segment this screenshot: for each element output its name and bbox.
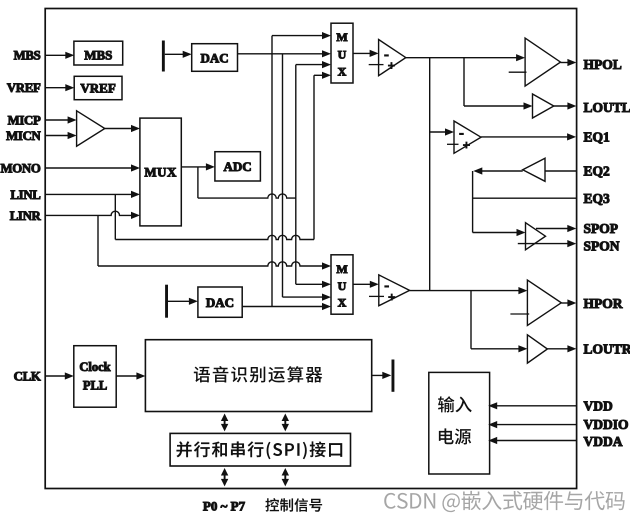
- wire U1 output to HPOL amp: [406, 57, 522, 59]
- wire MUX2 to comparator U3: [353, 283, 375, 285]
- svg-text:Clock: Clock: [79, 360, 110, 374]
- wire speaker amp to SPON pin: [518, 243, 573, 245]
- svg-text:EQ1: EQ1: [584, 130, 611, 145]
- svg-text:VREF: VREF: [7, 81, 41, 95]
- svg-text:+: +: [463, 137, 470, 152]
- wire LOUTL amp to pin: [554, 105, 573, 107]
- svg-text:EQ3: EQ3: [584, 191, 611, 206]
- bus SPI-port left: [224, 474, 226, 480]
- svg-text:DAC: DAC: [206, 295, 234, 310]
- svg-text:EQ2: EQ2: [584, 164, 611, 179]
- block output MUX2: [331, 255, 353, 314]
- wire net to EQ1 comparator: [430, 131, 451, 133]
- wire VREF pin to VREF block: [45, 87, 71, 89]
- wire EQ2 pin to EQ2 amp: [545, 170, 577, 172]
- svg-text:+: +: [388, 289, 395, 304]
- label control signals: [265, 498, 322, 512]
- svg-text:+: +: [388, 58, 395, 73]
- op-amp comparator U2 EQ1: [454, 121, 481, 153]
- svg-text:HPOL: HPOL: [584, 57, 622, 72]
- wire LINL tap to bus V4: [115, 235, 314, 239]
- block input power supply: [429, 372, 490, 474]
- stub HPOR feedback: [510, 313, 529, 315]
- chip boundary: [45, 9, 576, 489]
- op-amp comparator U3: [379, 275, 410, 306]
- wire Clock PLL to processor: [116, 375, 142, 377]
- svg-text:MBS: MBS: [14, 49, 41, 63]
- svg-text:VDDIO: VDDIO: [584, 417, 629, 432]
- bus wire V4 LINL-to-MUX1: [313, 75, 315, 239]
- block Clock PLL: [74, 346, 116, 408]
- junction LINR tap: [97, 215, 99, 266]
- op-amp speaker driver: [526, 223, 546, 250]
- svg-text:U: U: [338, 47, 347, 61]
- wire HPOL amp to pin: [561, 62, 574, 64]
- svg-text:M: M: [336, 262, 347, 276]
- watermark CSDN: [384, 491, 624, 512]
- svg-text:CLK: CLK: [14, 369, 41, 383]
- op-amp mic preamp: [77, 111, 105, 146]
- svg-text:LOUTL: LOUTL: [584, 100, 630, 115]
- stub U3 plus input: [369, 295, 384, 297]
- svg-text:DAC: DAC: [201, 50, 229, 65]
- wire speaker amp to SPOP pin: [536, 228, 573, 230]
- wire MICP pin to mic amp: [45, 119, 73, 121]
- bus wire V2 DAC1-to-MUX2: [282, 54, 284, 297]
- svg-text:LINL: LINL: [10, 188, 40, 202]
- wire DAC2 to output MUX2: [242, 306, 327, 308]
- wire U2 output to EQ1 pin: [481, 136, 573, 138]
- wire input MUX to ADC: [181, 166, 211, 168]
- block SPI interface: [170, 433, 350, 466]
- wire EQ2 net down: [472, 171, 474, 233]
- svg-text:HPOR: HPOR: [584, 296, 623, 311]
- bus wire V1 DAC2-to-MUX1: [271, 36, 273, 307]
- svg-text:VREF: VREF: [80, 81, 115, 96]
- svg-text:U: U: [338, 279, 347, 293]
- stub U2 plus input: [447, 143, 459, 145]
- wire MUX1 to comparator U1: [353, 52, 375, 54]
- wire processor to output bar: [372, 374, 388, 376]
- wire net to speaker amp: [473, 232, 522, 234]
- svg-text:LOUTR: LOUTR: [584, 342, 630, 357]
- wire U1 output down to HPOR net: [429, 58, 431, 291]
- op-amp EQ2 buffer: [523, 158, 545, 181]
- input bar DAC1: [162, 41, 165, 72]
- bus processor-SPI left: [224, 420, 226, 426]
- wire EQ3 pin to net: [473, 197, 577, 199]
- op-amp comparator U1: [379, 40, 406, 76]
- block speech recognition processor: [145, 340, 371, 412]
- junction ADC record tap: [197, 167, 199, 198]
- stub HPOL feedback: [509, 71, 527, 73]
- svg-text:LINR: LINR: [10, 209, 42, 223]
- svg-text:ADC: ADC: [224, 159, 252, 174]
- wire bar to DAC1: [165, 53, 189, 55]
- wire ADC tap to bus V3: [198, 194, 296, 198]
- wire VDD pin to power block: [492, 405, 577, 407]
- bus processor-SPI right: [284, 420, 286, 426]
- svg-text:MICP: MICP: [8, 113, 41, 127]
- output bar processor: [392, 360, 395, 392]
- op-amp LOUTR driver: [527, 335, 547, 363]
- bus SPI-port right: [284, 474, 286, 480]
- svg-text:X: X: [338, 295, 347, 309]
- svg-text:SPOP: SPOP: [584, 221, 619, 236]
- wire LOUTR amp to pin: [547, 348, 573, 350]
- op-amp HPOR driver: [527, 280, 561, 325]
- junction LINL tap: [114, 194, 116, 239]
- svg-text:SPON: SPON: [584, 238, 620, 253]
- wire MBS pin to MBS block: [45, 54, 71, 56]
- block output MUX1: [331, 23, 353, 83]
- wire U3 output to HPOR amp: [410, 290, 524, 292]
- wire LINR tap to output MUX2: [98, 262, 328, 266]
- block VREF: [74, 76, 122, 99]
- svg-text:PLL: PLL: [83, 379, 107, 393]
- wire DAC1 to output MUX1: [238, 53, 328, 55]
- svg-text:X: X: [338, 64, 347, 78]
- wire MICN pin to mic amp: [45, 135, 73, 137]
- input bar DAC2: [165, 285, 168, 318]
- stub U1 plus input: [369, 64, 384, 66]
- bus wire V3 ADC-to-MUX1-MUX2: [295, 65, 297, 285]
- svg-text:P0 ~ P7: P0 ~ P7: [203, 499, 246, 514]
- wire VDDA pin to power block: [492, 440, 577, 442]
- op-amp HPOL driver: [525, 38, 560, 86]
- wire MONO pin to input MUX: [45, 167, 137, 169]
- block input MUX: [140, 118, 181, 226]
- svg-text:VDDA: VDDA: [584, 434, 623, 449]
- wire branch to LOUTL amp: [463, 58, 465, 106]
- svg-text:MUX: MUX: [144, 165, 177, 180]
- wire branch to LOUTR amp: [470, 291, 472, 349]
- wire LINL pin to input MUX: [45, 193, 137, 195]
- wire VDDIO pin to power block: [492, 424, 577, 426]
- svg-text:MBS: MBS: [84, 48, 112, 63]
- block ADC: [215, 152, 261, 181]
- wire CLK pin to Clock PLL: [45, 375, 71, 377]
- wire EQ2 amp output: [477, 170, 523, 172]
- svg-text:VDD: VDD: [584, 399, 613, 414]
- wire HPOR amp to pin: [561, 302, 573, 304]
- wire mic amp to input MUX: [105, 128, 137, 130]
- wire LINR pin to input MUX: [45, 211, 137, 215]
- svg-text:MONO: MONO: [0, 161, 40, 175]
- wire bar to DAC2: [168, 300, 195, 302]
- svg-text:MICN: MICN: [6, 129, 41, 143]
- op-amp LOUTL driver: [533, 94, 554, 118]
- block MBS: [74, 41, 123, 65]
- block DAC1: [192, 44, 238, 72]
- block DAC2: [198, 287, 242, 317]
- svg-text:M: M: [336, 30, 347, 44]
